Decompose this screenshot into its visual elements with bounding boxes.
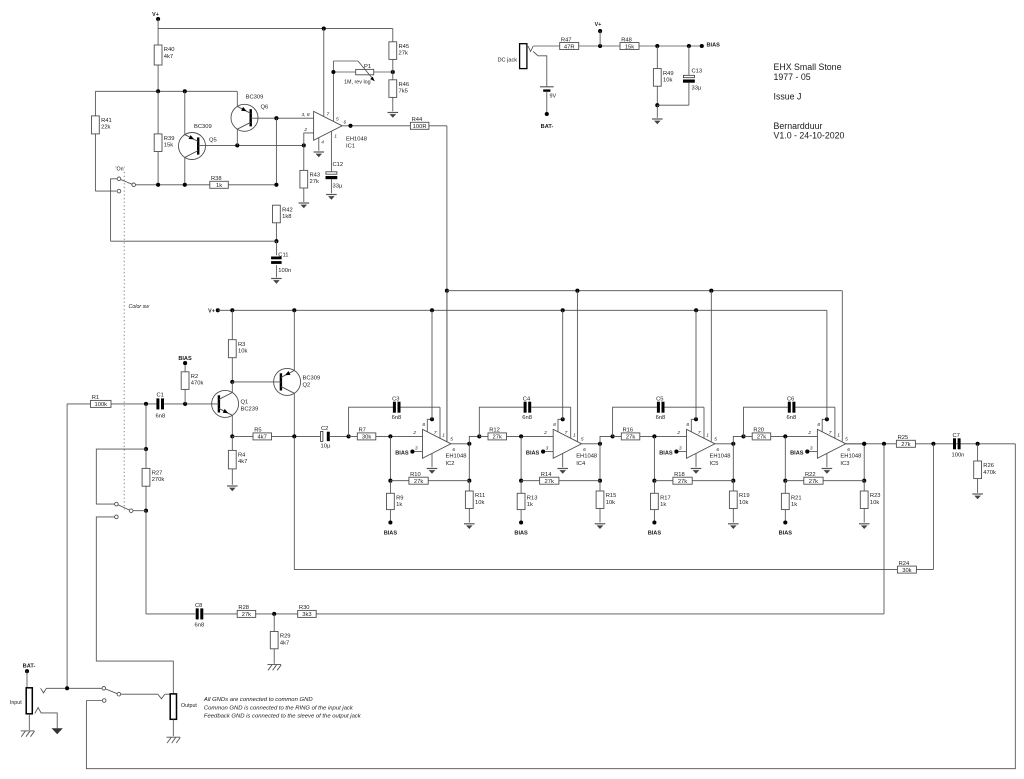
- svg-text:R28: R28: [238, 605, 249, 611]
- svg-text:2: 2: [543, 430, 547, 436]
- svg-text:3k3: 3k3: [302, 612, 311, 618]
- svg-text:EH1048: EH1048: [346, 137, 367, 143]
- svg-text:27k: 27k: [310, 179, 319, 185]
- svg-text:BIAS: BIAS: [790, 450, 804, 456]
- svg-text:BIAS: BIAS: [395, 450, 409, 456]
- svg-text:R24: R24: [899, 561, 910, 567]
- svg-text:R27: R27: [152, 471, 163, 477]
- svg-text:270k: 270k: [152, 477, 165, 483]
- svg-text:Q6: Q6: [261, 105, 269, 111]
- svg-text:10k: 10k: [870, 500, 879, 506]
- svg-text:C3: C3: [392, 397, 399, 403]
- svg-text:R30: R30: [299, 605, 310, 611]
- svg-text:7: 7: [434, 430, 437, 436]
- svg-text:27k: 27k: [809, 479, 818, 485]
- svg-text:R39: R39: [164, 136, 175, 142]
- svg-text:EH1048: EH1048: [840, 453, 861, 459]
- svg-text:8: 8: [817, 422, 820, 428]
- svg-text:C11: C11: [278, 253, 288, 259]
- svg-text:100n: 100n: [278, 268, 291, 274]
- svg-text:5: 5: [336, 117, 339, 123]
- svg-text:R2: R2: [191, 374, 198, 380]
- svg-text:C8: C8: [195, 603, 202, 609]
- svg-text:6: 6: [583, 447, 586, 453]
- svg-text:R43: R43: [310, 173, 321, 179]
- svg-text:R38: R38: [211, 176, 222, 182]
- svg-text:1k: 1k: [791, 502, 797, 508]
- svg-text:R42: R42: [282, 207, 293, 213]
- svg-text:BIAS: BIAS: [384, 531, 398, 537]
- svg-text:10k: 10k: [739, 500, 748, 506]
- svg-text:6n8: 6n8: [156, 414, 166, 420]
- svg-text:470k: 470k: [983, 470, 996, 476]
- svg-text:R45: R45: [399, 44, 410, 50]
- svg-text:C5: C5: [656, 397, 663, 403]
- svg-text:BIAS: BIAS: [526, 450, 540, 456]
- svg-text:DC jack: DC jack: [498, 58, 518, 64]
- svg-text:4k7: 4k7: [238, 459, 247, 465]
- svg-text:Q1: Q1: [241, 400, 249, 406]
- svg-text:7: 7: [698, 430, 701, 436]
- svg-text:15k: 15k: [164, 143, 173, 149]
- svg-text:'On': 'On': [116, 166, 125, 172]
- svg-text:EH1048: EH1048: [576, 453, 597, 459]
- svg-text:7k5: 7k5: [399, 89, 408, 95]
- svg-text:8: 8: [422, 422, 425, 428]
- svg-text:BIAS: BIAS: [648, 531, 662, 537]
- svg-text:1k: 1k: [660, 502, 666, 508]
- svg-text:3: 3: [546, 446, 549, 452]
- svg-text:1: 1: [573, 433, 576, 439]
- svg-text:1k8: 1k8: [282, 214, 291, 220]
- svg-text:R19: R19: [739, 493, 750, 499]
- svg-text:R46: R46: [399, 82, 410, 88]
- svg-text:6n8: 6n8: [656, 415, 666, 421]
- svg-text:R7: R7: [359, 428, 366, 434]
- svg-text:5: 5: [845, 436, 848, 442]
- svg-text:EHX Small Stone: EHX Small Stone: [774, 62, 842, 72]
- svg-text:R40: R40: [164, 47, 175, 53]
- svg-text:5: 5: [450, 436, 453, 442]
- svg-text:BIAS: BIAS: [659, 450, 673, 456]
- svg-text:4k7: 4k7: [164, 54, 173, 60]
- svg-text:9V: 9V: [550, 94, 557, 100]
- svg-text:8: 8: [686, 422, 689, 428]
- svg-text:100n: 100n: [952, 453, 965, 459]
- svg-text:2: 2: [807, 430, 811, 436]
- svg-text:V1.0 - 24-10-2020: V1.0 - 24-10-2020: [774, 131, 845, 141]
- svg-text:C12: C12: [333, 162, 344, 168]
- svg-text:30k: 30k: [362, 435, 371, 441]
- svg-text:10k: 10k: [475, 500, 484, 506]
- svg-text:2: 2: [412, 430, 416, 436]
- svg-text:BC309: BC309: [303, 376, 321, 382]
- svg-text:3: 3: [415, 446, 418, 452]
- svg-text:BIAS: BIAS: [707, 42, 721, 48]
- svg-text:R1: R1: [92, 395, 99, 401]
- svg-text:R3: R3: [238, 342, 245, 348]
- svg-text:R4: R4: [238, 453, 246, 459]
- svg-text:R5: R5: [254, 428, 261, 434]
- svg-text:R11: R11: [475, 493, 485, 499]
- svg-text:1k: 1k: [216, 183, 222, 189]
- svg-text:R41: R41: [101, 118, 112, 124]
- svg-text:7: 7: [327, 112, 330, 118]
- svg-text:Color sw: Color sw: [129, 304, 151, 310]
- svg-text:BIAS: BIAS: [779, 531, 793, 537]
- svg-text:R21: R21: [791, 496, 802, 502]
- svg-text:IC5: IC5: [710, 461, 719, 467]
- svg-text:6: 6: [344, 120, 347, 126]
- svg-text:30k: 30k: [902, 568, 911, 574]
- svg-text:V+: V+: [208, 309, 215, 315]
- svg-text:27k: 27k: [242, 612, 251, 618]
- svg-text:R47: R47: [561, 37, 572, 43]
- svg-text:2: 2: [676, 430, 680, 436]
- svg-text:BC239: BC239: [241, 407, 259, 413]
- svg-text:EH1048: EH1048: [710, 453, 731, 459]
- svg-text:BAT-: BAT-: [23, 664, 36, 670]
- svg-text:10k: 10k: [663, 77, 672, 83]
- svg-text:6: 6: [716, 447, 719, 453]
- svg-text:27k: 27k: [414, 479, 423, 485]
- svg-text:27k: 27k: [545, 479, 554, 485]
- svg-text:Bernardduur: Bernardduur: [774, 121, 823, 131]
- svg-text:22k: 22k: [101, 125, 110, 131]
- svg-text:1: 1: [334, 134, 337, 140]
- svg-text:7: 7: [565, 430, 568, 436]
- svg-text:3: 3: [810, 446, 813, 452]
- svg-text:BC309: BC309: [246, 95, 264, 101]
- svg-text:R25: R25: [898, 435, 909, 441]
- svg-text:C1: C1: [157, 393, 164, 399]
- svg-text:R16: R16: [623, 428, 634, 434]
- svg-text:R18: R18: [674, 472, 685, 478]
- svg-text:6n8: 6n8: [392, 415, 402, 421]
- svg-text:R48: R48: [621, 37, 632, 43]
- svg-text:1977 - 05: 1977 - 05: [774, 72, 811, 82]
- svg-text:7: 7: [829, 430, 832, 436]
- svg-text:R14: R14: [541, 472, 552, 478]
- svg-text:R9: R9: [396, 496, 403, 502]
- svg-text:R17: R17: [660, 496, 671, 502]
- svg-text:4: 4: [321, 140, 324, 146]
- svg-text:15k: 15k: [625, 44, 634, 50]
- svg-text:27k: 27k: [399, 51, 408, 57]
- svg-text:R10: R10: [410, 472, 421, 478]
- svg-text:R44: R44: [412, 117, 423, 123]
- svg-text:Feedback GND is connected to t: Feedback GND is connected to the sleeve …: [204, 714, 362, 720]
- svg-text:1k: 1k: [527, 502, 533, 508]
- svg-text:470k: 470k: [191, 381, 204, 387]
- svg-text:R49: R49: [663, 71, 674, 77]
- svg-text:4k7: 4k7: [258, 435, 267, 441]
- svg-text:1k: 1k: [396, 502, 402, 508]
- svg-text:27k: 27k: [626, 435, 635, 441]
- svg-text:6n8: 6n8: [522, 415, 532, 421]
- svg-text:IC2: IC2: [446, 461, 455, 467]
- svg-text:1: 1: [442, 433, 445, 439]
- svg-text:27k: 27k: [493, 435, 502, 441]
- svg-text:100R: 100R: [413, 124, 427, 130]
- svg-text:Input: Input: [10, 700, 22, 706]
- svg-text:BIAS: BIAS: [178, 356, 192, 362]
- svg-text:27k: 27k: [678, 479, 687, 485]
- svg-text:C6: C6: [787, 397, 794, 403]
- svg-text:R23: R23: [870, 493, 881, 499]
- svg-text:4k7: 4k7: [280, 640, 289, 646]
- svg-text:5: 5: [581, 436, 584, 442]
- svg-text:27k: 27k: [757, 435, 766, 441]
- svg-text:100k: 100k: [95, 402, 108, 408]
- svg-text:C2: C2: [321, 426, 328, 432]
- svg-text:Output: Output: [181, 703, 197, 709]
- svg-text:R13: R13: [527, 496, 538, 502]
- svg-text:Q5: Q5: [209, 138, 217, 144]
- svg-text:C7: C7: [953, 433, 960, 439]
- svg-text:BAT-: BAT-: [541, 124, 554, 130]
- svg-text:10k: 10k: [238, 349, 247, 355]
- svg-text:V+: V+: [595, 22, 602, 28]
- svg-text:1M, rev log: 1M, rev log: [344, 80, 371, 86]
- svg-text:33µ: 33µ: [692, 86, 702, 92]
- svg-text:6: 6: [452, 447, 455, 453]
- svg-text:3, 8: 3, 8: [301, 112, 309, 118]
- svg-text:47R: 47R: [564, 44, 575, 50]
- svg-text:6n8: 6n8: [787, 415, 797, 421]
- svg-text:IC4: IC4: [576, 461, 586, 467]
- svg-text:R22: R22: [805, 472, 816, 478]
- svg-text:33µ: 33µ: [333, 184, 343, 190]
- svg-text:1: 1: [706, 433, 709, 439]
- svg-text:EH1048: EH1048: [446, 453, 467, 459]
- svg-text:10µ: 10µ: [321, 444, 331, 450]
- svg-text:3: 3: [679, 446, 682, 452]
- svg-text:R12: R12: [489, 428, 500, 434]
- svg-text:Issue J: Issue J: [774, 91, 802, 101]
- svg-text:Q2: Q2: [303, 383, 311, 389]
- svg-text:P1: P1: [364, 64, 371, 70]
- svg-text:BIAS: BIAS: [514, 531, 528, 537]
- svg-text:6: 6: [847, 447, 850, 453]
- svg-text:27k: 27k: [901, 442, 910, 448]
- svg-text:R20: R20: [753, 428, 764, 434]
- svg-text:1: 1: [837, 433, 840, 439]
- svg-text:5: 5: [714, 436, 717, 442]
- svg-text:Common GND is connected to the: Common GND is connected to the RING of t…: [204, 706, 354, 712]
- svg-text:6n8: 6n8: [195, 623, 205, 629]
- svg-text:R26: R26: [983, 463, 994, 469]
- svg-text:All GNDs are connected to comm: All GNDs are connected to common GND: [203, 697, 313, 703]
- svg-text:BC309: BC309: [194, 124, 212, 130]
- svg-text:R15: R15: [606, 493, 617, 499]
- svg-text:C13: C13: [692, 69, 703, 75]
- svg-text:IC3: IC3: [840, 461, 849, 467]
- svg-text:R29: R29: [280, 634, 291, 640]
- svg-text:C4: C4: [523, 397, 531, 403]
- svg-text:IC1: IC1: [346, 144, 355, 150]
- svg-text:10k: 10k: [606, 500, 615, 506]
- svg-text:8: 8: [553, 422, 556, 428]
- svg-text:2: 2: [303, 127, 307, 133]
